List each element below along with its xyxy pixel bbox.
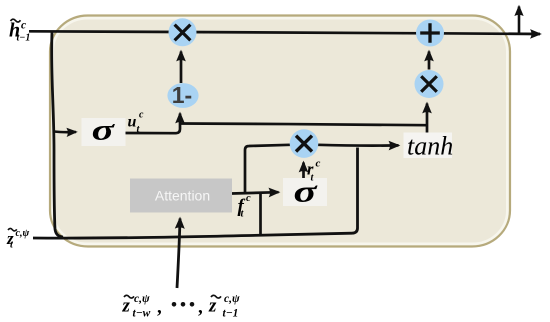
- wire tanh output up into multiply: [426, 104, 429, 134]
- node multiply x2 right: [415, 70, 444, 98]
- wire output branch arrow up at top right: [518, 7, 521, 34]
- svg-text:u: u: [128, 114, 137, 131]
- wire f branch down to z line: [259, 193, 262, 235]
- sigma-u gate box: [82, 113, 126, 146]
- svg-text:t−1: t−1: [223, 308, 239, 320]
- svg-text:z: z: [122, 296, 131, 317]
- wire sigma-r output arrow up into reset multiply: [302, 163, 305, 179]
- svg-text:c,ψ: c,ψ: [224, 293, 240, 305]
- wire u line continue right to candidate multiply: [180, 124, 427, 126]
- svg-text:c,ψ: c,ψ: [134, 293, 150, 305]
- label h(t-1) input: [9, 19, 30, 43]
- svg-text:1-: 1-: [172, 82, 192, 108]
- node multiply x1 top: [169, 18, 197, 46]
- svg-text:tanh: tanh: [407, 132, 453, 161]
- wire 1- output arrow up into top multiply: [180, 52, 183, 84]
- svg-text:t−w: t−w: [133, 308, 151, 320]
- wire f line from attention to sigma-r: [232, 192, 279, 193]
- wire multiply x2 output up into plus: [428, 52, 431, 70]
- svg-text:c: c: [21, 20, 26, 32]
- svg-text:c,ψ: c,ψ: [16, 228, 30, 239]
- tanh box: [404, 132, 454, 161]
- svg-text:t−1: t−1: [17, 32, 31, 43]
- wire h(t-1) top horizontal line: [29, 31, 540, 34]
- wire z line corner up to tanh input line: [352, 148, 358, 234]
- wire f branch up into reset multiply: [245, 145, 290, 193]
- wire attention input arrow from history: [177, 219, 180, 289]
- svg-text:c: c: [139, 110, 144, 121]
- svg-text:Attention: Attention: [155, 188, 210, 204]
- svg-text:z: z: [208, 296, 217, 317]
- wire arrow into sigma-u: [54, 130, 76, 133]
- wire sigma-u output line: [124, 114, 181, 134]
- svg-text:,: ,: [198, 297, 203, 318]
- svg-text:σ: σ: [293, 175, 317, 209]
- svg-text:,: ,: [157, 297, 162, 318]
- label u_t^c: [128, 110, 145, 136]
- svg-text:c: c: [246, 193, 251, 204]
- svg-text:σ: σ: [92, 113, 116, 146]
- wire reset multiply output to tanh: [318, 143, 399, 147]
- label history inputs z(t-w) ... z(t-1): [122, 293, 240, 320]
- wire left vertical from h line down to z line: [52, 32, 63, 237]
- attention box: [130, 179, 232, 213]
- svg-text:c: c: [316, 158, 321, 170]
- label f_t^c: [238, 193, 252, 220]
- wire z(t) bottom horizontal input line: [33, 233, 352, 238]
- node multiply x3 reset: [290, 129, 319, 158]
- sigma-r gate box: [283, 175, 327, 209]
- node plus: [416, 20, 444, 47]
- label z(t) input: [6, 228, 29, 251]
- node 1-minus: [167, 82, 198, 108]
- label r_t^c: [307, 158, 321, 184]
- cell body rounded rectangle: [50, 16, 510, 247]
